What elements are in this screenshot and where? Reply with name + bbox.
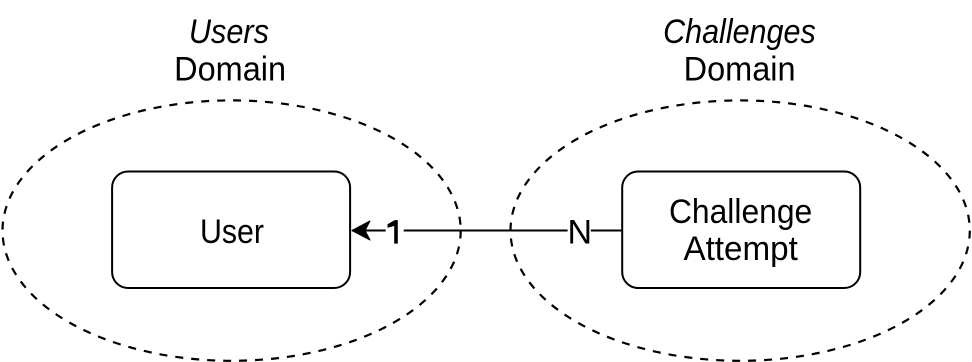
svg-text:Users: Users — [189, 13, 269, 51]
svg-text:N: N — [568, 214, 593, 252]
svg-text:Domain: Domain — [684, 51, 796, 89]
svg-text:Attempt: Attempt — [683, 230, 798, 268]
svg-text:User: User — [200, 213, 264, 251]
svg-text:Challenges: Challenges — [663, 13, 816, 51]
svg-text:Domain: Domain — [174, 51, 286, 89]
svg-text:Challenge: Challenge — [669, 193, 812, 231]
